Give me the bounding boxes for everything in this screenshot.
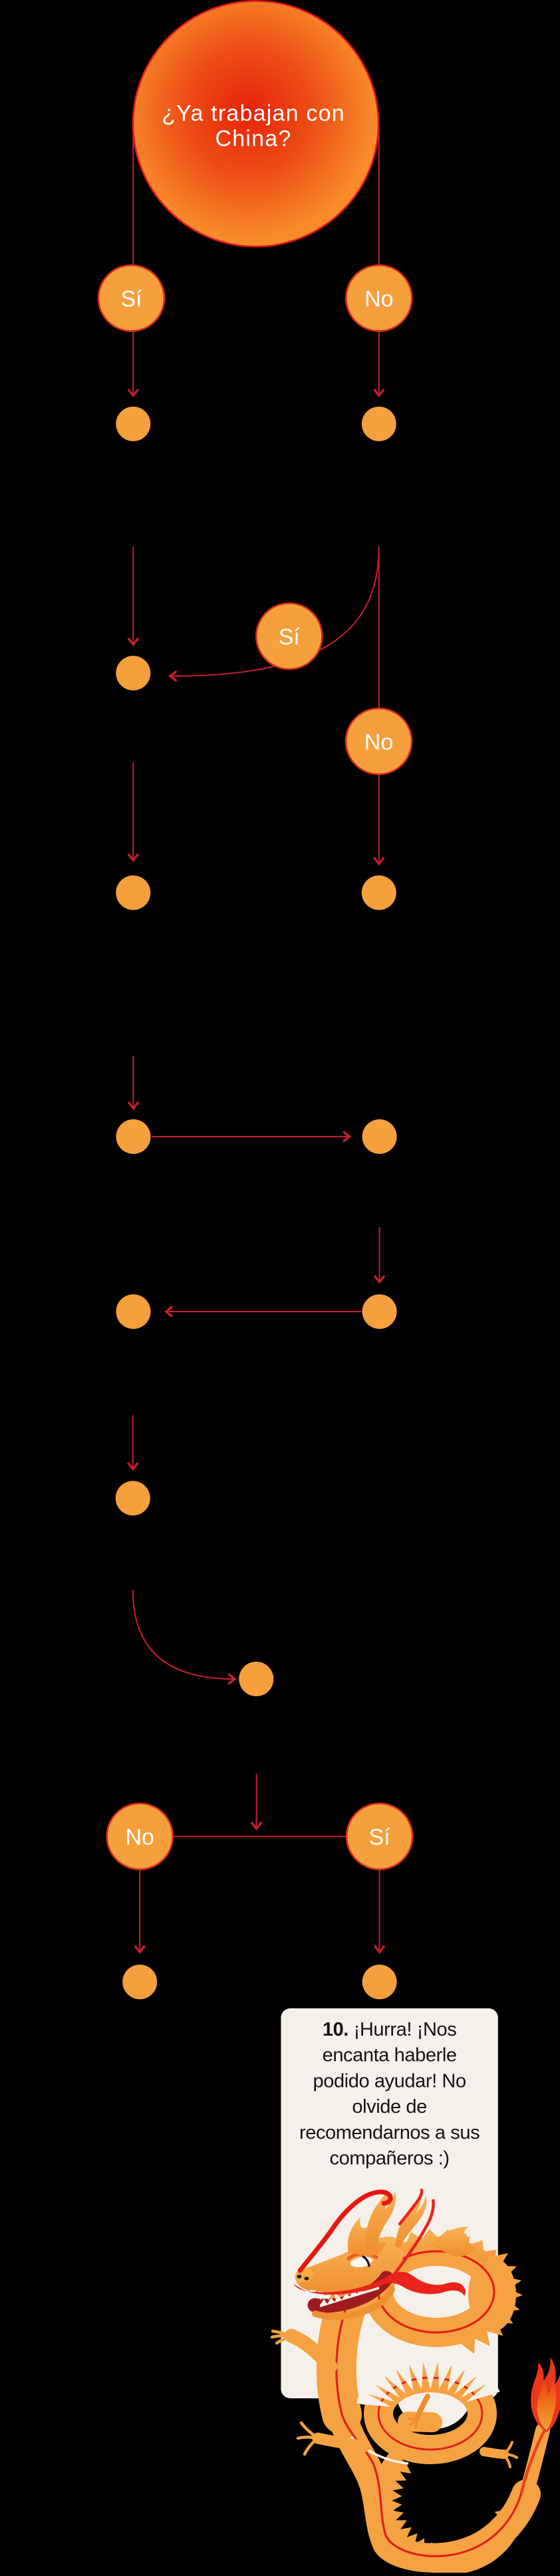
dragon mouth dark band (315, 2278, 386, 2306)
dragon cream backdrop behind coil (396, 2352, 473, 2429)
dragon red tail line to flame (521, 2429, 545, 2493)
wire: bottom-left arrow (139, 1870, 140, 1952)
dragon chest thick (337, 2301, 349, 2414)
wire: curved arrow to step8 (133, 1590, 234, 1679)
svg-text:encanta haberle: encanta haberle (323, 2045, 457, 2066)
dragon red stripe chest/tail (337, 2301, 521, 2556)
node: No circle bottom (107, 1803, 173, 1869)
svg-text:China?: China? (215, 126, 292, 152)
node: dot step4 left (116, 876, 150, 910)
dragon claw inside coil (416, 2396, 428, 2420)
dragon loop right thickening (468, 2257, 516, 2332)
dragon mane flames (348, 2217, 386, 2256)
dragon eyelash (349, 2254, 376, 2259)
dragon red stripe on loop (378, 2251, 494, 2332)
node: dot step3 (116, 656, 150, 691)
wire: curved Si branch to dot step3 (172, 546, 379, 676)
wire: right line from big circle to arrow above dot 2 (378, 126, 380, 395)
wire: right long line through No circle (378, 546, 380, 863)
dragon white dorsal serration (356, 2354, 500, 2407)
wire: right arrow down to row6 (379, 1227, 380, 1281)
wire: horizontal arrow left row6 (167, 1311, 362, 1312)
wire: left arrow down (132, 763, 134, 860)
card: step 10 message (281, 2008, 497, 2398)
wire: bottom-right arrow (379, 1870, 380, 1952)
node: Si circle top-left (98, 266, 164, 331)
node: dot step4 right (362, 876, 396, 910)
dragon white sliver under coil (351, 2437, 408, 2464)
node: dot step9 (122, 1964, 157, 1999)
wire: horizontal arrow right row5 (152, 1136, 349, 1137)
dragon tail taper (526, 2430, 543, 2494)
svg-text:Sí: Sí (279, 625, 301, 650)
node: dot row5 right (362, 1119, 397, 1154)
svg-text:No: No (125, 1825, 154, 1850)
node: dot step7 (116, 1481, 150, 1515)
dragon red whisker with hook (300, 2192, 390, 2271)
svg-text:No: No (364, 287, 393, 312)
node: No circle mid (346, 709, 412, 775)
node: dot row6 left (116, 1294, 151, 1329)
dragon mane ruffle on loop top (368, 2229, 496, 2273)
dragon coil ring (378, 2378, 482, 2450)
dragon nose bump (295, 2268, 313, 2283)
wire: left arrow down to step7 (132, 1415, 134, 1469)
dragon right leg (484, 2452, 504, 2454)
wire: connector No-Si bottom (173, 1836, 347, 1837)
node: dot step2 right (362, 407, 396, 441)
svg-text:recomendarnos a sus: recomendarnos a sus (299, 2122, 480, 2143)
svg-text:10. ¡Hurra! ¡Nos: 10. ¡Hurra! ¡Nos (323, 2019, 457, 2040)
dragon whisker from mouth corner (391, 2199, 434, 2279)
dragon lower teeth (320, 2283, 379, 2307)
svg-text:olvide de: olvide de (352, 2096, 427, 2117)
dragon body upper loop (378, 2251, 494, 2332)
dragon coil end cap (408, 2422, 432, 2422)
svg-text:No: No (364, 730, 393, 755)
wire: left line from big circle to arrow above dot 1 (132, 126, 134, 395)
dragon head (297, 2237, 403, 2296)
dragon flame inner (537, 2378, 557, 2430)
dragon nostrils (297, 2275, 302, 2278)
dragon tail inner spikes (372, 2450, 525, 2575)
svg-text:compañeros :): compañeros :) (330, 2148, 450, 2169)
dragon illustration (272, 2190, 560, 2575)
node: Si circle bottom (347, 1803, 412, 1869)
svg-text:Sí: Sí (120, 287, 142, 312)
node: Si circle mid (256, 604, 322, 669)
dragon upper fangs (310, 2290, 339, 2300)
dragon red tongue ribbon from nose (293, 2272, 466, 2296)
svg-text:Sí: Sí (369, 1825, 391, 1850)
dragon chest and tail (337, 2301, 526, 2558)
node: dot step1 left (116, 407, 150, 441)
dragon spikes right edge of loop (458, 2253, 523, 2354)
dragon lower lip (315, 2289, 392, 2316)
node: dot step8 (239, 1662, 273, 1696)
dragon whisker crescent (400, 2190, 422, 2224)
svg-text:¿Ya trabajan con: ¿Ya trabajan con (162, 101, 345, 126)
dragon left leg (318, 2438, 364, 2446)
node: big question circle (133, 1, 378, 247)
dragon tail thin tip (536, 2424, 548, 2450)
dragon flame tail tip (531, 2357, 560, 2432)
dragon red stripe on coil (378, 2378, 482, 2450)
wire: arrow down to No/Si connector (256, 1774, 257, 1828)
wire: left arrow down to row5 (133, 1056, 134, 1107)
node: No circle top-right (346, 266, 412, 331)
node: dot step10 (362, 1964, 397, 1999)
node: dot row5 left (116, 1119, 151, 1154)
dragon front arm (291, 2336, 331, 2366)
svg-text:podido ayudar! No: podido ayudar! No (313, 2070, 466, 2092)
dragon eye (350, 2257, 373, 2267)
wire: left arrow to dot step3 (132, 547, 134, 644)
node: dot row6 right (362, 1294, 397, 1329)
